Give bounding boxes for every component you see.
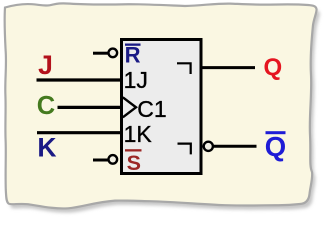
svg-text:C1: C1 bbox=[137, 96, 166, 122]
wire R input stub bbox=[93, 52, 108, 55]
wire Q output bbox=[202, 66, 255, 69]
svg-text:Q: Q bbox=[263, 54, 282, 81]
svg-text:K: K bbox=[37, 132, 56, 162]
overline S bbox=[125, 149, 142, 151]
wire S input stub bbox=[93, 159, 108, 162]
svg-text:1K: 1K bbox=[124, 121, 153, 147]
svg-text:1J: 1J bbox=[124, 67, 148, 93]
flip-flop body U1 bbox=[122, 40, 202, 174]
svg-text:S: S bbox=[127, 151, 141, 175]
postponed output mark Q bbox=[177, 63, 191, 74]
wire Qbar output bbox=[214, 145, 257, 148]
inversion bubble R bbox=[109, 49, 118, 58]
svg-text:Q: Q bbox=[265, 131, 286, 162]
wire K input bbox=[37, 131, 123, 134]
overline R bbox=[125, 44, 141, 46]
overline Qbar bbox=[266, 131, 286, 134]
svg-text:C: C bbox=[37, 92, 55, 120]
clock edge triangle C1 bbox=[123, 97, 136, 117]
svg-text:J: J bbox=[38, 50, 53, 80]
inversion bubble Qbar bbox=[204, 142, 213, 151]
postponed output mark Qbar bbox=[178, 144, 191, 155]
wire J input bbox=[37, 78, 124, 81]
svg-text:R: R bbox=[125, 42, 141, 67]
wire C input bbox=[58, 106, 123, 109]
inversion bubble S bbox=[109, 155, 118, 164]
